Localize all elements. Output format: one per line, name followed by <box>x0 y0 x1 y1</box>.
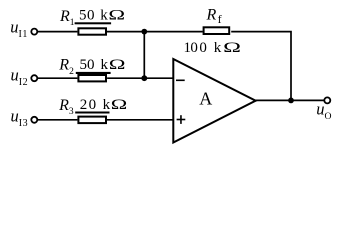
svg-text:uI3: uI3 <box>11 107 29 129</box>
svg-text:Ω: Ω <box>111 97 127 114</box>
svg-text:0: 0 <box>87 8 95 24</box>
svg-text:Rf: Rf <box>206 7 222 26</box>
svg-text:uI2: uI2 <box>11 66 29 88</box>
svg-text:5: 5 <box>80 57 88 73</box>
svg-text:5: 5 <box>79 8 87 24</box>
svg-text:Ω: Ω <box>109 56 126 72</box>
svg-text:0: 0 <box>199 40 207 56</box>
svg-text:R1: R1 <box>59 8 75 28</box>
svg-text:Ω: Ω <box>108 7 125 23</box>
svg-text:Ω: Ω <box>223 39 241 55</box>
svg-text:k: k <box>214 40 222 56</box>
svg-text:R2: R2 <box>58 57 74 77</box>
svg-text:uI1: uI1 <box>10 18 28 40</box>
svg-text:0: 0 <box>89 97 97 113</box>
svg-text:R3: R3 <box>58 97 74 117</box>
svg-text:0: 0 <box>87 57 95 73</box>
svg-text:2: 2 <box>80 97 88 113</box>
svg-text:k: k <box>100 8 108 24</box>
svg-text:0: 0 <box>190 40 198 56</box>
svg-text:k: k <box>103 97 111 113</box>
svg-text:A: A <box>199 89 212 109</box>
svg-text:k: k <box>101 57 109 73</box>
